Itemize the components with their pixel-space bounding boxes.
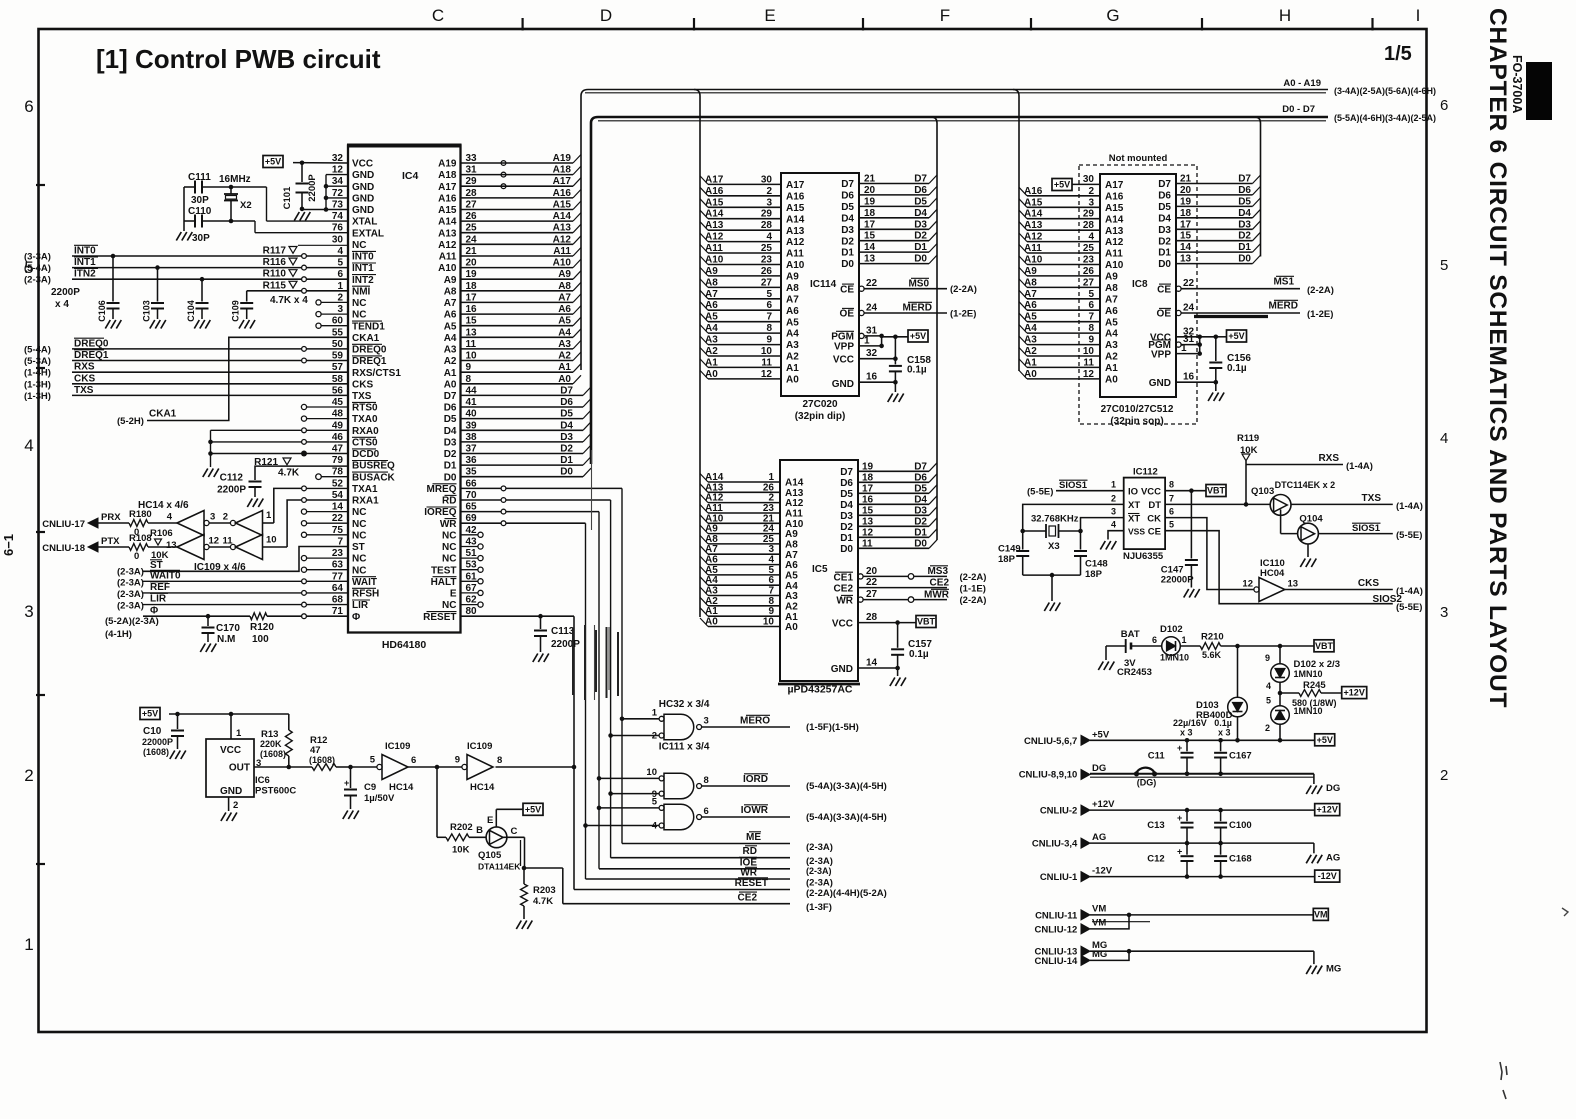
svg-text:A9: A9 — [444, 275, 457, 286]
svg-text:A13: A13 — [1024, 220, 1043, 231]
svg-text:A11: A11 — [1105, 249, 1123, 260]
right margin black tab — [1526, 62, 1552, 120]
svg-text:IC4: IC4 — [402, 170, 419, 182]
svg-text:MS0: MS0 — [908, 279, 929, 290]
svg-text:R210: R210 — [1201, 632, 1224, 643]
svg-text:RFSH: RFSH — [352, 589, 379, 600]
svg-text:BUSREQ: BUSREQ — [352, 461, 395, 472]
svg-text:XT: XT — [1128, 513, 1140, 524]
svg-text:D5: D5 — [444, 414, 457, 425]
svg-text:C10: C10 — [143, 726, 162, 737]
svg-text:18P: 18P — [1085, 569, 1103, 580]
ferrite bead (DG) — [1136, 768, 1155, 774]
svg-text:CTS0: CTS0 — [352, 438, 378, 449]
svg-text:1/5: 1/5 — [1384, 43, 1412, 65]
svg-text:IC114: IC114 — [810, 279, 837, 290]
svg-text:A13: A13 — [553, 223, 572, 234]
svg-text:A15: A15 — [1024, 197, 1043, 208]
svg-text:14: 14 — [332, 502, 344, 513]
svg-text:24: 24 — [1183, 303, 1195, 314]
svg-text:5: 5 — [766, 289, 772, 300]
svg-text:D7: D7 — [914, 461, 927, 472]
crystal X2 — [229, 185, 234, 190]
svg-text:R120: R120 — [250, 622, 274, 633]
svg-text:A0: A0 — [444, 379, 457, 390]
svg-text:6: 6 — [704, 806, 709, 817]
svg-text:17: 17 — [862, 483, 874, 494]
svg-text:CHAPTER 6 CIRCUIT SCHEMATICS A: CHAPTER 6 CIRCUIT SCHEMATICS AND PARTS L… — [1484, 8, 1511, 708]
svg-text:VPP: VPP — [1151, 350, 1171, 361]
svg-text:HALT: HALT — [431, 577, 457, 588]
svg-text:D1: D1 — [560, 455, 573, 466]
svg-text:FO-3700A: FO-3700A — [1510, 55, 1524, 113]
svg-text:(32pin dip): (32pin dip) — [795, 411, 846, 422]
svg-text:A3: A3 — [786, 340, 799, 351]
svg-text:1: 1 — [266, 510, 272, 521]
svg-text:D3: D3 — [444, 438, 457, 449]
RXS net (1-4A) — [1246, 464, 1343, 466]
svg-text:R119: R119 — [1237, 433, 1259, 444]
svg-text:D2: D2 — [914, 516, 927, 527]
svg-text:DREQ0: DREQ0 — [352, 345, 387, 356]
svg-text:A3: A3 — [705, 335, 718, 346]
svg-text:D6: D6 — [914, 472, 927, 483]
svg-text:R106: R106 — [150, 528, 173, 539]
svg-text:A2: A2 — [444, 356, 457, 367]
svg-text:x 3: x 3 — [1180, 728, 1193, 738]
IC112 DT pin7 to Q103 — [1165, 503, 1270, 505]
svg-text:PST600C: PST600C — [255, 786, 296, 797]
svg-text:IC6: IC6 — [255, 775, 270, 786]
svg-text:A2: A2 — [558, 351, 571, 362]
svg-text:12: 12 — [1242, 579, 1253, 590]
svg-text:XTAL: XTAL — [352, 217, 377, 228]
capacitor C12 — [1186, 843, 1188, 855]
svg-text:11: 11 — [761, 357, 772, 368]
inverter IC109a pins 4-3 — [177, 511, 204, 536]
svg-text:1: 1 — [236, 728, 242, 739]
svg-text:CNLIU-8,9,10: CNLIU-8,9,10 — [1019, 769, 1078, 780]
svg-text:HC14: HC14 — [389, 782, 414, 793]
svg-text:16: 16 — [862, 494, 874, 505]
svg-text:PRX: PRX — [101, 512, 121, 523]
svg-text:20: 20 — [864, 185, 876, 196]
svg-text:D4: D4 — [560, 420, 573, 431]
svg-text:A7: A7 — [705, 544, 718, 555]
svg-text:OUT: OUT — [229, 763, 250, 774]
svg-text:E: E — [487, 815, 493, 826]
svg-text:CKA1: CKA1 — [149, 409, 177, 420]
diodes D102 x 2/3 1MN10 and R245 580 — [1279, 646, 1281, 664]
svg-text:10: 10 — [646, 767, 657, 778]
svg-text:D2: D2 — [444, 449, 457, 460]
SIOS2 output net (5-5E) — [1165, 531, 1393, 604]
svg-text:MERO: MERO — [740, 716, 770, 727]
svg-text:22000P: 22000P — [142, 737, 173, 747]
svg-text:A12: A12 — [705, 493, 724, 504]
svg-text:(3-3A): (3-3A) — [24, 252, 51, 263]
svg-text:CKS: CKS — [352, 379, 373, 390]
svg-text:CNLIU-1: CNLIU-1 — [1040, 872, 1078, 883]
IC112 VCC pin8 to VBT — [1165, 490, 1206, 492]
svg-text:+: + — [1177, 743, 1182, 753]
svg-text:D3: D3 — [914, 219, 927, 230]
svg-text:(5-5A)(4-6H)(3-4A)(2-5A): (5-5A)(4-6H)(3-4A)(2-5A) — [1334, 113, 1436, 123]
svg-text:(2-3A): (2-3A) — [117, 567, 144, 578]
svg-text:9: 9 — [1265, 653, 1270, 663]
svg-text:MS1: MS1 — [1273, 277, 1294, 288]
wire to VBT box — [1221, 645, 1314, 647]
svg-text:(5-4A): (5-4A) — [24, 263, 51, 274]
svg-text:CK: CK — [1147, 513, 1161, 524]
svg-text:A0: A0 — [558, 374, 571, 385]
wire VCC pin32 — [293, 162, 348, 164]
svg-text:A2: A2 — [1105, 352, 1118, 363]
svg-text:CNLIU-17: CNLIU-17 — [42, 519, 85, 530]
svg-text:A1: A1 — [1024, 357, 1037, 368]
svg-text:TXS: TXS — [74, 385, 94, 396]
svg-text:+12V: +12V — [1317, 805, 1338, 815]
svg-text:D6: D6 — [840, 478, 853, 489]
svg-text:5: 5 — [652, 797, 658, 808]
stray ink specks bottom right — [1500, 1062, 1507, 1099]
svg-text:(1-2E): (1-2E) — [1307, 309, 1333, 320]
svg-text:A14: A14 — [438, 217, 457, 228]
svg-text:2: 2 — [24, 766, 33, 785]
svg-text:8: 8 — [497, 755, 502, 766]
svg-text:25: 25 — [1083, 243, 1095, 254]
svg-text:H: H — [1279, 6, 1291, 25]
svg-text:AG: AG — [1326, 853, 1340, 864]
svg-text:GND: GND — [352, 194, 374, 205]
svg-text:A17: A17 — [786, 180, 805, 191]
svg-text:D2: D2 — [1158, 236, 1171, 247]
svg-text:D0: D0 — [1238, 254, 1251, 265]
svg-text:4: 4 — [1088, 232, 1094, 243]
svg-text:MWR: MWR — [924, 590, 950, 601]
svg-text:10: 10 — [266, 535, 277, 546]
capacitor C9 1u/50V electrolytic — [348, 765, 353, 770]
svg-text:2: 2 — [223, 512, 228, 523]
svg-text:VCC: VCC — [352, 159, 373, 170]
svg-text:A16: A16 — [786, 191, 805, 202]
svg-text:R110: R110 — [263, 269, 287, 280]
svg-text:C: C — [432, 6, 444, 25]
inverter IC109c pins 13-12 — [177, 535, 204, 560]
wire XTAL pin74 — [266, 187, 268, 221]
svg-text:(1608): (1608) — [143, 747, 169, 757]
svg-text:6: 6 — [1440, 97, 1448, 114]
svg-text:VSS: VSS — [1128, 526, 1145, 536]
svg-text:RESET: RESET — [423, 612, 456, 623]
svg-text:INT1: INT1 — [352, 263, 374, 274]
svg-text:17: 17 — [1180, 219, 1192, 230]
svg-text:A4: A4 — [786, 329, 799, 340]
Q104 emitter ground — [1307, 544, 1309, 557]
svg-text:CE: CE — [1157, 284, 1171, 295]
svg-text:(1-3H): (1-3H) — [24, 379, 51, 390]
svg-text:79: 79 — [332, 455, 344, 466]
svg-text:(1608): (1608) — [260, 749, 286, 759]
svg-text:CNLIU-5,6,7: CNLIU-5,6,7 — [1024, 736, 1077, 747]
svg-text:22000P: 22000P — [1161, 575, 1194, 586]
svg-text:13: 13 — [1288, 579, 1299, 590]
svg-text:(5-5E): (5-5E) — [1027, 487, 1053, 498]
svg-text:A7: A7 — [785, 550, 798, 561]
diode D103 RB400D — [1237, 646, 1239, 698]
svg-text:A8: A8 — [1105, 283, 1118, 294]
svg-text:VCC: VCC — [832, 619, 853, 630]
svg-text:D1: D1 — [840, 533, 853, 544]
svg-text:A13: A13 — [1105, 226, 1124, 237]
svg-text:12: 12 — [209, 536, 220, 547]
svg-text:6−1: 6−1 — [1, 534, 16, 556]
IC5 data pins D7-D0 — [858, 470, 929, 472]
svg-text:TXA1: TXA1 — [352, 484, 378, 495]
svg-text:A7: A7 — [705, 289, 718, 300]
svg-text:A3: A3 — [1024, 335, 1037, 346]
svg-text:20: 20 — [866, 566, 878, 577]
svg-text:NC: NC — [442, 554, 456, 565]
svg-text:6: 6 — [1088, 300, 1094, 311]
svg-text:+12V: +12V — [1344, 688, 1365, 698]
svg-text:HC32 x 3/4: HC32 x 3/4 — [659, 699, 710, 710]
svg-text:D0 - D7: D0 - D7 — [1282, 104, 1315, 115]
svg-text:28: 28 — [761, 220, 773, 231]
svg-text:(1-3F): (1-3F) — [806, 902, 832, 913]
svg-text:3: 3 — [766, 197, 772, 208]
svg-text:INT1: INT1 — [74, 257, 96, 268]
svg-text:11: 11 — [862, 538, 873, 549]
+5V box to IC8 pin30 — [1052, 179, 1072, 191]
svg-text:A17: A17 — [553, 176, 572, 187]
svg-text:C13: C13 — [1147, 820, 1164, 831]
svg-text:IC112: IC112 — [1133, 467, 1158, 478]
svg-text:DG: DG — [1326, 783, 1340, 794]
svg-text:A9: A9 — [786, 272, 799, 283]
svg-text:R245: R245 — [1303, 680, 1326, 691]
svg-text:C112: C112 — [220, 473, 244, 484]
svg-text:CNLIU-11: CNLIU-11 — [1035, 910, 1078, 921]
svg-text:27: 27 — [761, 277, 773, 288]
svg-text:A15: A15 — [1105, 203, 1124, 214]
svg-text:D7: D7 — [444, 391, 457, 402]
svg-text:GND: GND — [1149, 378, 1171, 389]
svg-text:x 4: x 4 — [55, 299, 69, 310]
svg-text:0.1µ: 0.1µ — [1214, 718, 1232, 728]
svg-text:D4: D4 — [841, 213, 854, 224]
svg-text:A10: A10 — [1105, 260, 1124, 271]
svg-text:12: 12 — [1083, 369, 1095, 380]
svg-text:(5-2A)(2-3A): (5-2A)(2-3A) — [105, 616, 159, 627]
svg-text:(1-4H): (1-4H) — [24, 368, 51, 379]
svg-text:14: 14 — [866, 658, 878, 669]
svg-text:C12: C12 — [1147, 854, 1164, 865]
svg-text:A6: A6 — [558, 304, 571, 315]
svg-text:A12: A12 — [705, 232, 724, 243]
svg-text:X2: X2 — [240, 200, 252, 211]
svg-text:A12: A12 — [438, 240, 457, 251]
svg-text:INT0: INT0 — [352, 252, 374, 263]
svg-text:X3: X3 — [1048, 541, 1060, 552]
svg-text:12: 12 — [862, 527, 874, 538]
HC32 gate IC111b IORD — [597, 776, 602, 781]
svg-text:-12V: -12V — [1092, 866, 1113, 877]
svg-text:A13: A13 — [438, 228, 457, 239]
svg-text:A16: A16 — [438, 194, 457, 205]
svg-text:D: D — [600, 6, 612, 25]
svg-text:IOWR: IOWR — [741, 805, 769, 816]
svg-text:(32pin sop): (32pin sop) — [1110, 416, 1163, 427]
svg-text:IC109 x 4/6: IC109 x 4/6 — [194, 562, 246, 573]
resistor R13 220K (1608) — [288, 714, 290, 730]
svg-text:27: 27 — [866, 589, 878, 600]
svg-text:0.1µ: 0.1µ — [907, 365, 927, 376]
grid ticks top — [521, 18, 523, 31]
svg-text:3: 3 — [704, 716, 709, 727]
svg-text:(1-4A): (1-4A) — [1346, 461, 1373, 472]
svg-text:RTS0: RTS0 — [352, 403, 378, 414]
svg-text:D3: D3 — [914, 505, 927, 516]
svg-text:SIOS1: SIOS1 — [1352, 523, 1381, 534]
svg-text:1MN10: 1MN10 — [1294, 706, 1323, 716]
svg-text:REF: REF — [150, 582, 170, 593]
address bus drop to IC8 — [1013, 90, 1019, 372]
svg-text:4: 4 — [1266, 681, 1271, 691]
svg-text:2: 2 — [768, 493, 774, 504]
svg-text:CNLIU-18: CNLIU-18 — [42, 543, 85, 554]
svg-text:A10: A10 — [705, 255, 724, 266]
svg-text:µPD43257AC: µPD43257AC — [788, 684, 853, 696]
svg-text:(3-4A)(2-5A)(5-6A)(4-6H): (3-4A)(2-5A)(5-6A)(4-6H) — [1334, 86, 1436, 96]
svg-text:2200P: 2200P — [307, 174, 318, 202]
svg-text:2: 2 — [766, 186, 772, 197]
svg-text:N.M: N.M — [217, 634, 235, 645]
svg-text:NC: NC — [352, 310, 366, 321]
svg-text:14: 14 — [864, 242, 876, 253]
svg-text:C149: C149 — [998, 544, 1021, 555]
svg-text:VM: VM — [1092, 904, 1106, 915]
svg-text:A14: A14 — [786, 214, 805, 225]
svg-text:10: 10 — [761, 346, 773, 357]
svg-text:3: 3 — [210, 512, 215, 523]
svg-text:D2: D2 — [560, 444, 573, 455]
svg-text:4.7K: 4.7K — [533, 896, 553, 907]
svg-text:Q104: Q104 — [1299, 514, 1323, 525]
svg-text:9: 9 — [766, 335, 772, 346]
svg-text:(2-2A): (2-2A) — [1307, 285, 1334, 296]
svg-text:(4-1H): (4-1H) — [105, 629, 132, 640]
svg-text:8: 8 — [1169, 480, 1174, 490]
svg-text:+5V: +5V — [265, 157, 281, 167]
svg-text:2: 2 — [1265, 723, 1270, 733]
svg-text:NC: NC — [442, 542, 456, 553]
svg-text:RD: RD — [743, 846, 757, 857]
svg-text:A2: A2 — [705, 596, 718, 607]
svg-text:A8: A8 — [1024, 277, 1037, 288]
svg-text:D1: D1 — [444, 461, 457, 472]
capacitor C10 22000P (1608) — [177, 714, 179, 729]
IC114 data pins D7-D0 — [859, 183, 929, 185]
svg-text:IC5: IC5 — [812, 564, 828, 575]
svg-text:(5-5E): (5-5E) — [1396, 530, 1422, 541]
capacitors C106 C103 C104 C109 2200P x4 — [112, 256, 114, 302]
svg-text:GND: GND — [352, 205, 374, 216]
svg-text:(1-2E): (1-2E) — [950, 309, 976, 320]
svg-text:D7: D7 — [840, 467, 853, 478]
wire IOREQ vertical — [598, 512, 600, 869]
inverter IC109d pins 11-10 — [230, 544, 235, 549]
svg-text:2200P: 2200P — [217, 485, 246, 496]
grid ticks left — [36, 184, 45, 186]
svg-text:TXA0: TXA0 — [352, 414, 378, 425]
svg-text:A11: A11 — [553, 246, 571, 257]
capacitor C101 2200P — [301, 163, 303, 182]
IC8 data pins D7-D0 — [1176, 183, 1253, 185]
svg-text:8: 8 — [766, 323, 772, 334]
svg-text:D2: D2 — [841, 236, 854, 247]
svg-text:TEND1: TEND1 — [352, 321, 385, 332]
svg-text:A1: A1 — [1105, 363, 1118, 374]
svg-text:A16: A16 — [705, 186, 724, 197]
svg-text:+5V: +5V — [910, 331, 926, 341]
svg-text:14: 14 — [1180, 242, 1192, 253]
svg-text:21: 21 — [864, 174, 876, 185]
svg-text:TEST: TEST — [431, 565, 457, 576]
svg-text:D4: D4 — [914, 208, 927, 219]
svg-text:D6: D6 — [560, 397, 573, 408]
svg-text:0: 0 — [134, 551, 139, 562]
IC5 RAM uPD43257AC body — [780, 460, 858, 681]
svg-text:IC8: IC8 — [1132, 279, 1148, 290]
svg-text:3: 3 — [24, 602, 33, 621]
svg-text:R202: R202 — [450, 822, 473, 833]
svg-text:NC: NC — [352, 240, 366, 251]
svg-text:+5V: +5V — [142, 709, 158, 719]
svg-text:G: G — [1106, 6, 1119, 25]
svg-text:5: 5 — [1169, 520, 1174, 530]
svg-text:NC: NC — [352, 530, 366, 541]
svg-text:5: 5 — [370, 755, 376, 766]
svg-text:AG: AG — [1092, 832, 1106, 843]
svg-text:(2-3A): (2-3A) — [24, 275, 51, 286]
IC112 RTC NJU6355 body — [1124, 478, 1165, 549]
svg-text:(2-3A): (2-3A) — [806, 866, 832, 876]
svg-text:NJU6355: NJU6355 — [1123, 551, 1164, 562]
svg-text:GND: GND — [831, 664, 853, 675]
svg-text:6: 6 — [1169, 507, 1174, 517]
svg-text:D2: D2 — [840, 522, 853, 533]
svg-text:A8: A8 — [705, 277, 718, 288]
svg-text:CR2453: CR2453 — [1117, 667, 1152, 678]
svg-text:A2: A2 — [786, 352, 799, 363]
svg-text:A7: A7 — [1105, 294, 1118, 305]
svg-text:4: 4 — [652, 821, 658, 832]
svg-text:RXA1: RXA1 — [352, 496, 379, 507]
svg-text:D3: D3 — [1238, 219, 1251, 230]
svg-text:A0: A0 — [786, 375, 799, 386]
capacitor C168 — [1220, 843, 1222, 855]
not mounted dashed outline — [1079, 165, 1197, 424]
svg-text:D7: D7 — [560, 385, 573, 396]
svg-text:A1: A1 — [786, 363, 799, 374]
svg-text:ME: ME — [746, 832, 761, 843]
resistor R203 4.7K — [523, 868, 525, 884]
crystal X2 16MHz circuit — [184, 186, 195, 188]
svg-text:A19: A19 — [438, 159, 457, 170]
svg-text:C110: C110 — [188, 206, 212, 217]
svg-text:F: F — [940, 6, 950, 25]
